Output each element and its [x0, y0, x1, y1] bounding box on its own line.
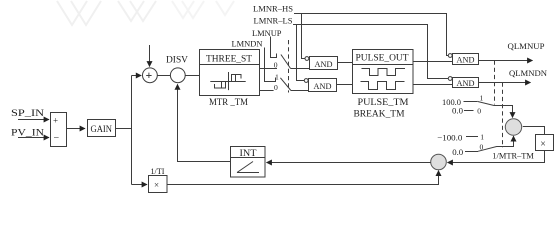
- wire subtractor to GAIN: [67, 128, 86, 130]
- down-value switch arm and wire to grey summer: [478, 136, 514, 151]
- wire multiplier down and left to grey summer 2: [448, 151, 545, 163]
- dashed actuation from QLMNUP: [494, 61, 496, 105]
- wire THREE_ST down output (contact 0): [260, 90, 274, 92]
- three-step element THREE_ST: [200, 50, 260, 96]
- contact 1 wire of down-value switch: [466, 136, 478, 138]
- subtractor block: [51, 113, 67, 147]
- three-step icon: [210, 72, 245, 90]
- contact 0 wire of up-value switch: [464, 110, 474, 112]
- integrator ramp icon: [237, 162, 259, 173]
- wire LMNR-LS: [293, 25, 449, 79]
- wire pulse up output to right AND: [413, 61, 453, 63]
- watermark: [57, 1, 156, 25]
- svg-text:0: 0: [274, 60, 278, 69]
- svg-text:GAIN: GAIN: [91, 125, 113, 135]
- summer circle: [143, 68, 158, 83]
- svg-text:QLMNUP: QLMNUP: [508, 41, 545, 51]
- multiplier box: [536, 135, 554, 151]
- and gate upper-left: [305, 57, 309, 61]
- svg-text:1: 1: [480, 132, 484, 141]
- wire junction to summer: [132, 75, 142, 77]
- wire THREE_ST up output (contact 0): [260, 68, 278, 70]
- switch coupling dashed line: [288, 40, 290, 93]
- contact hook LMNUP: [271, 37, 277, 58]
- wire junction vertical run: [131, 76, 133, 185]
- switch arm lower: [280, 78, 291, 91]
- and gate lower-right: [448, 77, 452, 81]
- svg-text:THREE_ST: THREE_ST: [206, 54, 252, 65]
- svg-text:LMNR–LS: LMNR–LS: [254, 16, 293, 26]
- wire PV_IN into subtractor: [18, 137, 49, 139]
- svg-text:+: +: [53, 115, 58, 125]
- svg-text:0: 0: [477, 107, 481, 116]
- wire integrator feedback into DISV node: [178, 84, 231, 161]
- wire top free input into summer: [149, 45, 151, 67]
- multiplier 1/TI: [149, 176, 168, 193]
- svg-text:LMNUP: LMNUP: [252, 28, 282, 38]
- output wire QLMNDN: [479, 82, 531, 84]
- wire LMNR-HS: [294, 14, 448, 56]
- contact 1 wire of up-value switch: [464, 101, 478, 103]
- svg-text:×: ×: [154, 180, 159, 190]
- svg-text:INT: INT: [240, 148, 258, 158]
- node DISV circle: [170, 68, 185, 83]
- contact hook LMNDN: [265, 48, 276, 82]
- gain block GAIN: [88, 120, 116, 137]
- and gate upper-right: [448, 54, 452, 58]
- dashed actuation from QLMNDN: [502, 83, 504, 148]
- svg-text:LMNDN: LMNDN: [232, 39, 264, 49]
- svg-text:−: −: [54, 133, 60, 144]
- wire 1/TI output to grey summer 2 bottom: [167, 171, 439, 185]
- svg-text:0: 0: [274, 83, 278, 92]
- svg-text:0.0: 0.0: [452, 106, 464, 116]
- svg-text:MTR _TM: MTR _TM: [209, 98, 249, 108]
- svg-text:−100.0: −100.0: [437, 133, 463, 143]
- wire pulse down output to right AND: [413, 84, 453, 86]
- wire junction to 1/TI multiplier: [132, 184, 148, 186]
- svg-text:LMNR–HS: LMNR–HS: [253, 4, 293, 14]
- svg-text:SP_IN: SP_IN: [11, 109, 44, 119]
- svg-text:AND: AND: [457, 55, 475, 65]
- svg-text:BREAK_TM: BREAK_TM: [354, 109, 406, 119]
- wire upper switch to AND gate: [291, 68, 310, 70]
- svg-text:1/MTR–TM: 1/MTR–TM: [492, 150, 534, 160]
- svg-text:0.0: 0.0: [452, 147, 464, 157]
- pulse waveform lower: [361, 82, 405, 90]
- svg-text:AND: AND: [314, 81, 332, 91]
- svg-text:PULSE_TM: PULSE_TM: [358, 98, 410, 108]
- wire grey summer 2 to integrator INT: [267, 162, 431, 164]
- svg-text:1/TI: 1/TI: [151, 167, 165, 176]
- up-value switch arm and wire to grey summer: [477, 101, 512, 117]
- svg-text:AND: AND: [315, 59, 333, 69]
- and gate lower-left: [304, 79, 308, 83]
- wire GAIN to junction: [116, 128, 132, 130]
- svg-text:AND: AND: [457, 78, 475, 88]
- wire LMNR-HS branch to left AND: [302, 14, 306, 59]
- svg-text:PULSE_OUT: PULSE_OUT: [356, 53, 409, 64]
- svg-text:×: ×: [540, 139, 546, 150]
- output wire QLMNUP: [479, 60, 533, 62]
- wire lower-left AND to PULSE_OUT: [337, 84, 353, 86]
- grey summer right: [505, 119, 521, 135]
- wire upper-left AND to PULSE_OUT: [338, 62, 353, 64]
- wire summer to DISV node: [157, 75, 170, 77]
- pulse generator PULSE_OUT: [353, 50, 414, 94]
- svg-text:QLMNDN: QLMNDN: [509, 68, 548, 78]
- contact 0 wire of down-value switch: [465, 151, 478, 153]
- svg-text:1: 1: [480, 94, 484, 103]
- svg-text:DISV: DISV: [166, 54, 189, 64]
- wire DISV to THREE_ST: [185, 75, 199, 77]
- pulse waveform upper: [362, 69, 406, 76]
- wire grey summer to multiplier: [523, 127, 545, 135]
- wire SP_IN into subtractor: [18, 119, 49, 121]
- grey summer left: [431, 154, 447, 170]
- switch arm upper: [281, 55, 291, 69]
- wire LMNR-LS branch to left AND: [297, 25, 305, 81]
- wire lower switch to AND gate: [291, 90, 309, 92]
- integrator INT: [231, 147, 266, 178]
